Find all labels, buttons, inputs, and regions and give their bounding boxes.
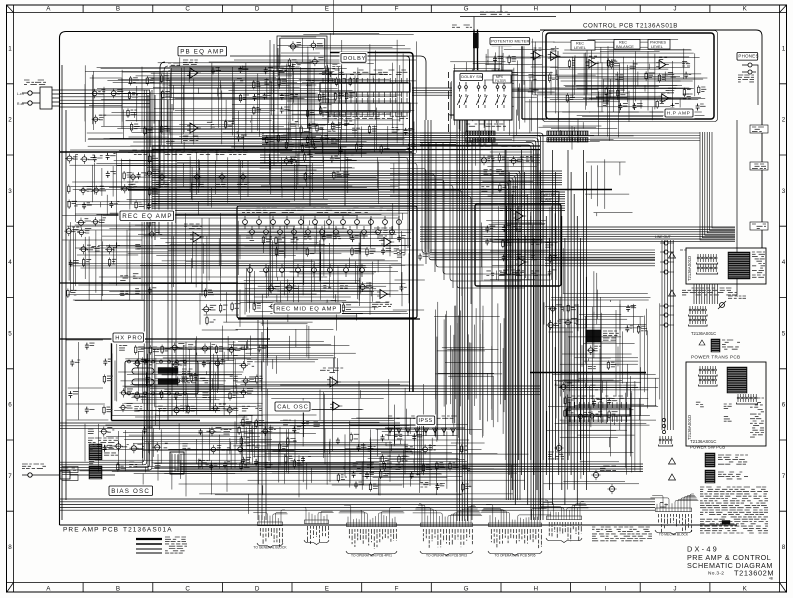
to housing led riser [452,25,478,70]
title block DX-49 [687,545,774,581]
control extra parts [603,58,706,110]
wiring mesh pb section [85,50,354,172]
svg-text:POTENTIO METER: POTENTIO METER [491,38,529,43]
svg-text:PRE AMP PCB: PRE AMP PCB [63,527,119,534]
comb B out bus [590,133,700,141]
control bus to right [420,227,735,241]
rec level amps [558,50,599,112]
switch bank drops [460,120,504,131]
svg-text:3: 3 [8,188,12,195]
svg-text:LEVEL: LEVEL [574,46,586,50]
PB EQ AMP section label [177,45,229,57]
line amp cluster [582,342,618,372]
pb head labels [62,467,78,481]
mid bus band C [152,192,565,210]
ipss network [350,440,471,492]
heavy line hx [60,338,270,340]
svg-text:B: B [116,6,120,13]
right edge drop [700,132,735,240]
rec eq left network [62,225,162,300]
svg-text:TO OPERATION PCB 4P01: TO OPERATION PCB 4P01 [351,554,392,558]
pb to rec vertical [155,95,345,240]
connector strip F [540,500,589,542]
mid verticals [472,140,505,520]
svg-text:1: 1 [8,45,12,52]
svg-text:7: 7 [8,473,12,480]
rec eq op-amp [184,224,204,242]
pb output heavy line [60,152,612,190]
right edge small label 2 [750,162,768,170]
connector comb B [547,131,588,142]
warning triangle A [669,250,687,258]
svg-text:PHONES: PHONES [738,54,758,59]
relay block [586,330,619,342]
POTENTIO METER label [489,36,532,46]
svg-text:HX PRO: HX PRO [115,336,143,342]
mid low runs [150,386,540,394]
svg-text:C: C [185,6,190,13]
wiring mesh rec eq [62,195,413,326]
svg-text:DOLBY: DOLBY [343,56,366,62]
svg-text:T2136AS01D: T2136AS01D [687,256,692,281]
svg-text:No.3-2: No.3-2 [708,571,724,577]
H.P AMP label [664,108,695,119]
dolby left wiring [270,40,278,170]
svg-text:J: J [673,6,676,13]
dolby vertical drops [425,120,431,252]
T2136AS01C label A [691,331,716,336]
svg-text:TO MECHA BLOCK: TO MECHA BLOCK [659,533,689,537]
top housing wire [460,12,556,30]
wiring mesh control top [549,39,708,120]
bottom long runs 2 [180,464,643,472]
mid bus elbows right [420,133,543,520]
svg-text:H.P AMP: H.P AMP [667,111,691,117]
svg-text:6: 6 [782,402,786,409]
connector strip 2 [303,507,334,544]
ipss diode row [385,416,465,436]
mid heavy pair [152,146,540,150]
meter amp op-amps [500,206,528,275]
svg-text:D: D [255,6,260,13]
connector to mecha block [650,494,698,537]
svg-text:I: I [605,6,607,13]
meter amp heavy border [475,204,561,286]
mid bus elbows right2 [430,171,520,500]
REC MID EQ AMP section label [273,303,342,315]
IPSS label [416,415,437,426]
svg-text:7: 7 [782,473,786,480]
wiring mesh switch bank [449,60,520,166]
chassis ground right [718,120,746,309]
hx pro left column [66,340,113,420]
svg-text:TO OPERATION PCB 5P03: TO OPERATION PCB 5P03 [426,554,467,558]
dolby sw transistor group A [277,36,327,71]
wiring mesh rec mid lower [223,311,356,374]
mid bus band B [152,171,562,185]
svg-text:CAL OSC: CAL OSC [277,405,309,411]
meter drive amps [524,42,560,92]
PB left bias network [65,150,160,230]
hx pro network [115,342,267,417]
vertical trunk dark [330,53,413,393]
mid band A2 [260,155,540,163]
head input connector L-ch/R-ch [17,80,60,109]
DOLBY SW label [459,72,485,82]
PB eq network [207,62,359,147]
svg-text:REC EQ AMP: REC EQ AMP [122,213,173,220]
PB level adj labels [166,63,180,141]
BIAS OSC label [108,485,155,497]
wiring mesh hx [111,336,263,439]
CONTROL PCB board outline [540,30,762,248]
svg-text:POWER SW PCB: POWER SW PCB [690,445,725,450]
REC LEVEL label [571,41,595,51]
connector to operation pcb 1 [339,505,405,557]
voltage note A [669,288,738,296]
meter amp parts [484,225,559,280]
svg-text:G: G [464,585,469,592]
interconnect wires A [694,284,717,304]
svg-text:BIAS OSC: BIAS OSC [111,488,150,495]
rec eq resistor rows [240,232,406,259]
vertical text smudge A [448,72,450,132]
vertical trunk right fan [506,150,587,505]
PB eq op-amp L [183,60,201,78]
rec mid heavy border [237,206,417,318]
svg-text:F: F [395,6,399,13]
svg-text:R-ch: R-ch [17,102,24,106]
heavy rec line [60,283,420,319]
connector to operation pcb 2 [413,504,482,558]
wiring mesh center right [545,248,660,427]
wiring mesh ipss [349,409,468,496]
dolby sw transistor group B [282,135,323,170]
vertical trunk mid [457,85,467,521]
mid bus band A [262,133,456,145]
PB eq op-amp R [183,123,201,141]
svg-text:B: B [116,585,120,592]
svg-text:J: J [673,585,676,592]
DOLBY label [340,52,368,64]
dolby peripheral parts [296,120,416,158]
dolby IC block lower [320,98,410,119]
svg-text:2: 2 [8,117,12,124]
dolby out bundle [412,88,452,95]
potentio meter parts [488,46,516,70]
bottom long runs [60,499,655,510]
line out connectors [655,235,674,327]
PB input resistors [122,72,171,137]
svg-text:T2136AS01A: T2136AS01A [123,527,173,534]
MPX FILTER label [493,75,511,83]
staircase center [390,143,525,304]
power sw heavy line [530,372,646,374]
svg-text:3: 3 [782,188,786,195]
svg-text:T2136AS01C: T2136AS01C [690,439,716,444]
svg-text:H: H [534,6,539,13]
bias osc transformer [170,452,184,474]
control pcb lower bus [430,250,655,260]
svg-text:LINE OUT: LINE OUT [655,235,671,239]
bias head connector [22,464,115,479]
rec out cluster [620,300,647,335]
hx heavy frame [112,343,201,421]
bias osc network [85,423,303,472]
svg-text:G: G [464,6,469,13]
interconnect box T2136AS01D [686,248,766,284]
rec mid op-amps [372,228,394,307]
right column connector dots [659,418,673,446]
svg-text:8: 8 [8,544,12,551]
mid low runs 2 [60,423,400,429]
PRE AMP PCB board outline [60,32,738,526]
notes block right [700,487,768,533]
meter buffer cluster [544,300,578,332]
measure note mid [592,527,652,541]
control amp heavy border [543,31,718,122]
head wire bundle [60,90,150,107]
svg-text:1: 1 [782,45,786,52]
wiring mesh bias [80,413,300,493]
rec mid down verticals [258,320,266,520]
phones jack [738,63,758,105]
fuse block C [669,470,749,483]
right column risers [662,240,673,430]
dolby IC block upper [320,70,410,97]
right edge small label 1 [750,125,768,133]
svg-text:T2136AS01D: T2136AS01D [687,415,692,440]
svg-text:TO GENERAL BLOCK: TO GENERAL BLOCK [253,546,287,550]
svg-text:CONTROL PCB T2136AS01B: CONTROL PCB T2136AS01B [583,23,678,30]
fuse block A [699,339,740,352]
svg-text:5: 5 [782,330,786,337]
svg-text:C: C [185,585,190,592]
line out feed bus [545,258,655,266]
meter amp label [540,190,561,202]
svg-text:H: H [534,585,539,592]
power sw transistors [548,443,668,507]
PB lower network [260,153,355,186]
wiring mesh meter col [513,69,634,149]
svg-text:D: D [255,585,260,592]
dolby switch box [454,71,512,120]
notes black blob [722,521,730,525]
POWER SW PCB label [690,439,725,450]
CONTROL PCB label [583,23,678,30]
connector to operation pcb 3 [481,504,551,557]
left bus risers [60,90,152,470]
POWER TRANS PCB label [691,355,740,360]
mute cluster [556,380,618,422]
PB output transistor row [127,150,250,187]
svg-text:FILTER: FILTER [495,79,506,83]
svg-text:4: 4 [782,259,786,266]
svg-text:E: E [325,6,329,13]
legend lines bottom-left [136,537,187,553]
rec eq left mid parts [200,288,241,330]
comb IC power sw [567,396,630,422]
svg-text:2: 2 [782,117,786,124]
svg-text:5: 5 [8,330,12,337]
PB input transistors Q101-Q104 [85,78,123,133]
HX PRO label [112,332,146,344]
fuse block B [669,453,749,467]
wiring mesh pb lower [67,136,399,208]
connector to general block [253,510,287,550]
svg-text:L-ch: L-ch [17,92,24,96]
wiring mesh bottom band [152,438,529,514]
rec mid transistor rows [245,281,373,316]
svg-text:F: F [395,585,399,592]
connector comb A [466,124,521,146]
svg-text:T2136AS01C: T2136AS01C [691,331,716,336]
svg-text:REC MID EQ AMP: REC MID EQ AMP [276,307,337,313]
right edge small label 3 [750,222,768,230]
svg-text:4: 4 [8,259,12,266]
PRE AMP PCB label [63,527,173,534]
wiring mesh dolby [277,0,418,172]
wiring mesh bottom right [544,372,650,490]
wiring mesh meter amp [482,206,558,281]
connector strip mid-right [689,306,708,326]
CAL OSC label [274,401,312,413]
PHONES label [736,51,760,62]
svg-text:TO OPERATION PCB 5P05: TO OPERATION PCB 5P05 [495,554,536,558]
REC BALANCE label [614,40,640,50]
left long verticals [148,95,176,470]
svg-text:E: E [325,585,329,592]
svg-text:LEVEL: LEVEL [651,45,663,49]
rec mid pots row [248,264,365,277]
power trans box [686,362,766,446]
svg-text:POWER TRANS PCB: POWER TRANS PCB [691,355,740,360]
svg-text:DOLBY SW: DOLBY SW [461,75,483,79]
wiring mesh staircase fill [434,302,504,443]
rec mid right parts [390,250,428,310]
hx pro ic block [125,360,198,395]
wiring mesh cal [233,358,423,489]
PHONES LEVEL label [648,40,670,50]
rec eq pots row [242,208,401,239]
wiring mesh rec mid [240,258,408,331]
cal osc network [235,415,325,468]
svg-text:4B: 4B [769,577,773,581]
REC EQ AMP section label [119,210,176,222]
svg-text:I: I [605,585,607,592]
pb top feedback loop [160,56,426,188]
pre meter cluster [480,152,538,196]
rec balance amps [602,50,640,112]
wiring mesh right of fan [585,159,632,216]
svg-text:BALANCE: BALANCE [616,45,634,49]
svg-text:PB EQ AMP: PB EQ AMP [180,49,225,56]
head connector blocks [88,438,118,479]
svg-text:8: 8 [782,544,786,551]
left edge vertical [62,65,66,520]
potentio meter heavy drop [522,45,547,119]
cal osc right network [330,433,422,486]
svg-text:IPSS: IPSS [419,418,433,424]
wiring mesh meter [485,39,560,97]
cal osc amps [320,368,343,410]
phones amps [648,50,693,112]
svg-text:6: 6 [8,402,12,409]
